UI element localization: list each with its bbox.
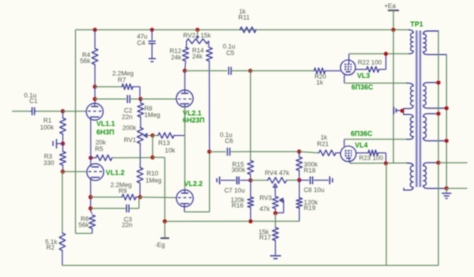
node R4 top [93,28,97,32]
svg-text:22n: 22n [122,222,133,229]
resistor R1 [40,111,66,143]
node R15 bottom [249,178,253,182]
resistor R10 [137,158,162,198]
capacitor C6 [209,132,250,156]
node R9 left [89,195,93,199]
svg-text:RV3: RV3 [260,195,273,202]
primary winding S1 [409,30,414,54]
wire Ea bus down [392,30,394,163]
wire node A to VL1.1 grid [63,110,87,112]
secondary winding T4 [423,163,446,189]
resistor R13 [153,133,185,155]
svg-text:+Ea: +Ea [384,3,396,10]
resistor R4 [80,30,98,87]
wire node to VL2.1 grid [141,98,177,100]
svg-text:VL3: VL3 [357,73,370,80]
primary winding S4 [404,163,413,190]
svg-text:10k: 10k [165,147,176,154]
wire RV1 bottom [139,144,141,158]
wire input [12,110,30,112]
svg-text:1Meg: 1Meg [144,112,160,119]
capacitor C5 [185,43,251,74]
node C4 top [150,28,154,32]
triode VL2.2 [176,190,193,207]
resistor R21 [299,134,340,155]
wire anode lead VL1.1 [94,87,96,104]
svg-text:56k: 56k [78,222,89,229]
svg-text:C7 10u: C7 10u [224,187,245,194]
node T2 top [436,81,440,85]
node R18 bottom [297,178,301,182]
svg-text:22n: 22n [122,114,133,121]
wire secondary bus A [437,31,439,265]
node S2 S3 junction [400,109,404,115]
wire anode lead VL2.1 [184,71,186,91]
node VL2.1 anode [183,69,187,73]
node RV3 bottom [273,211,277,215]
label TP1 [410,22,423,29]
svg-text:15k: 15k [201,32,212,39]
svg-text:24k: 24k [171,54,182,61]
resistor R23 [356,150,386,163]
resistor R5 [91,140,153,161]
primary winding S3 [404,114,414,139]
wire -Eg rail [165,220,299,222]
capacitor C3 [91,197,139,229]
capacitor stub at node B [53,139,63,149]
wire VL2.2 cathode loop [184,152,209,212]
label VL2.1 [183,110,205,124]
svg-text:C8 10u: C8 10u [304,187,325,194]
svg-text:R19: R19 [304,205,316,212]
node R9 right [138,195,142,199]
svg-text:1Meg: 1Meg [146,178,162,185]
svg-text:330: 330 [44,160,55,167]
resistor R6 [78,215,95,233]
svg-text:C5: C5 [226,50,235,57]
svg-text:6Н23П: 6Н23П [183,117,205,124]
resistor R8 [138,99,161,128]
wire anode node to ground rail [385,163,387,265]
node B R1/R3 [61,142,65,146]
resistor R11 [238,8,256,32]
capacitor C7 [217,177,251,195]
triode VL1.2 [87,164,104,181]
node -Eg [163,219,167,223]
triode VL1.1 [86,103,103,120]
node C6 tap [207,150,211,154]
svg-text:VL4: VL4 [355,142,368,149]
svg-text:VL1.1: VL1.1 [96,121,115,128]
secondary winding T3 [423,114,446,141]
capacitor C1 [24,92,38,115]
svg-text:R11: R11 [238,15,250,22]
wire VL3 cathode [344,75,407,83]
wire VL4 anode [350,161,407,163]
wire node C to VL1.2 grid [63,171,87,173]
resistor R14 [192,48,212,152]
resistor R2 [45,233,65,265]
resistor R19 [296,180,318,221]
resistor R12 [170,48,189,71]
triode VL2.1 [176,90,193,107]
resistor R7 [95,70,140,99]
svg-text:1k: 1k [316,79,324,86]
svg-text:R16: R16 [232,202,244,209]
wire output stub bottom [447,187,468,189]
node R5 left SRPP [89,156,93,160]
wire VL1.2 cathode [91,181,93,214]
svg-text:R7: R7 [118,77,127,84]
potentiometer RV4 [251,170,300,190]
svg-text:VL2.1: VL2.1 [183,110,202,117]
node R5 wire [151,155,155,159]
wire node C down to R2 [61,172,63,233]
node RV2 wiper top [195,28,199,32]
wire top rail [76,29,410,31]
node R16 bottom [249,219,253,223]
terminal -Eg [155,221,169,249]
svg-text:C4: C4 [137,40,146,47]
wire VL2.1 cathode to VL2.2 anode [184,107,186,190]
wire bottom rail [62,264,438,266]
wire C1 to node A [37,110,63,112]
wire R6 bottom to left drop [76,232,93,234]
node T3 bottom [444,139,448,143]
wire VL1.1 cathode [90,120,92,158]
svg-text:R9: R9 [119,188,128,195]
label VL4 [351,131,373,149]
resistor R18 [296,152,318,181]
svg-text:R10: R10 [147,171,159,178]
node R7 left [93,85,97,89]
capacitor C4 [137,30,156,58]
node T2 bottom [444,106,448,110]
resistor R9 [91,182,140,200]
label VL2.2 [184,181,203,188]
resistor R3 [44,144,66,172]
terminal +Ea [384,3,399,30]
svg-text:R17: R17 [259,235,271,242]
node RV1 wiper [151,133,155,137]
svg-text:VL2.2: VL2.2 [184,181,203,188]
label VL1.2 [106,170,125,177]
resistor R20 [250,68,340,86]
node R23 bottom [384,161,388,165]
transformer core [417,31,421,188]
svg-text:R21: R21 [317,141,329,148]
svg-text:RV4 47k: RV4 47k [265,170,290,177]
node C2 right [139,97,143,101]
svg-text:C6: C6 [225,138,234,145]
label VL1.1 [96,121,115,136]
wire output stub top [438,162,467,164]
svg-text:56k: 56k [80,58,91,65]
node A [61,109,65,113]
primary winding S2 [404,83,414,109]
potentiometer RV3 [260,190,284,213]
wire VL3 anode [349,54,409,60]
capacitor C8 [299,176,332,194]
wire VL4 cathode [344,139,407,146]
node R18 top [297,150,301,154]
wire to VL2.2 grid [140,196,177,199]
node T4 top [436,161,440,165]
resistor R17 [259,213,279,255]
potentiometer RV2 [183,30,212,48]
svg-text:VL1.2: VL1.2 [106,170,125,177]
ground at secondary [442,188,452,198]
svg-text:C1: C1 [29,98,38,105]
svg-text:6П36С: 6П36С [351,84,373,91]
node +Ea rail [391,28,395,32]
svg-text:R13: R13 [158,140,170,147]
potentiometer RV1 [122,125,152,144]
capacitor C2 [95,95,141,121]
node C5 right [248,69,252,73]
ground below C4 [149,59,156,62]
svg-text:R23 100: R23 100 [359,155,384,162]
svg-text:RV1: RV1 [124,137,137,144]
svg-text:R5: R5 [95,146,104,153]
wire C5 node down [250,71,252,161]
svg-text:TP1: TP1 [410,22,423,29]
resistor R22 [356,54,386,72]
node T4 bottom [444,186,448,190]
wire secondary bus B [446,55,448,189]
ground below R17 [270,256,281,259]
beam tetrode VL3 [341,60,356,75]
wire R5 node to -Eg corner [153,157,165,221]
label VL3 [351,73,373,91]
node R22 top [384,52,388,56]
node C2 left [93,97,97,101]
node T3 top [436,112,440,116]
svg-text:100k: 100k [40,124,55,131]
svg-text:R22 100: R22 100 [358,60,383,67]
wire left drop from rail [75,30,77,234]
resistor R15 [231,161,253,181]
svg-text:47k: 47k [260,206,271,213]
secondary winding T1 [423,31,446,55]
wire C6 to R18 node [251,151,300,153]
svg-text:6П36С: 6П36С [351,131,373,138]
svg-text:RV2: RV2 [183,32,196,39]
wire wiper down [152,136,154,158]
wire VL1.2 anode [90,158,92,164]
node C R3 bottom [61,170,65,174]
secondary winding T2 [423,83,446,109]
svg-text:R2: R2 [46,245,55,252]
terminal at S2/S3 junction [394,107,401,114]
svg-text:-Eg: -Eg [155,242,165,249]
beam tetrode VL4 [341,146,357,162]
svg-text:6Н3П: 6Н3П [96,130,114,137]
svg-text:300k: 300k [231,167,246,174]
resistor R16 [231,180,254,221]
svg-text:24k: 24k [192,53,203,60]
node C3 left [89,206,93,210]
svg-text:R18: R18 [304,167,316,174]
svg-text:200k: 200k [122,125,137,132]
